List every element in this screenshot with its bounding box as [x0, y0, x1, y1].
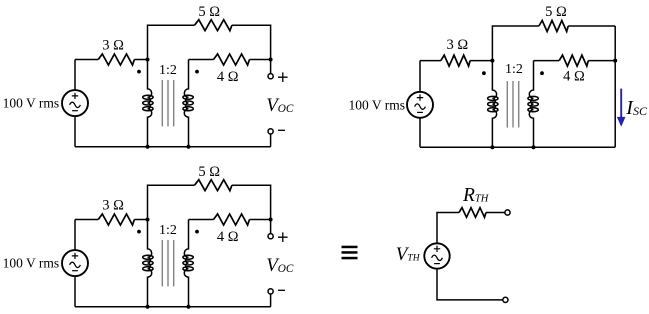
- terminal minus: [268, 289, 273, 294]
- bottom wire: [420, 146, 615, 148]
- resistor 3 ohm: [98, 214, 134, 225]
- transformer core: [162, 240, 173, 287]
- svg-text:4 Ω: 4 Ω: [217, 69, 239, 85]
- wire secondary top to 4-ohm resistor: [189, 59, 214, 61]
- label minus sign: [278, 289, 285, 291]
- wire R_TH to top terminal: [486, 212, 505, 214]
- node secondary bottom: [187, 305, 191, 309]
- wire source bottom: [74, 276, 76, 307]
- wire node to plus terminal: [270, 220, 272, 234]
- resistor 5 ohm: [195, 180, 232, 191]
- svg-text:100 V rms: 100 V rms: [3, 256, 60, 271]
- polarity dot primary: [137, 230, 141, 234]
- wire source top: [419, 61, 421, 92]
- wire 5-ohm to output node: [232, 25, 271, 59]
- svg-text:3 Ω: 3 Ω: [102, 197, 124, 213]
- terminal plus: [268, 234, 273, 239]
- resistor 5 ohm: [539, 21, 568, 32]
- terminal bottom right: [503, 297, 508, 302]
- wire 4-ohm resistor to right node: [588, 60, 615, 62]
- terminal plus: [268, 74, 273, 79]
- transformer secondary winding: [528, 61, 538, 148]
- svg-text:100 V rms: 100 V rms: [3, 96, 60, 111]
- wire 5-ohm branch: [492, 26, 539, 61]
- wire 4-ohm resistor to right node: [250, 219, 271, 221]
- bottom wire: [75, 306, 271, 308]
- wire 5-ohm to output node: [232, 185, 271, 219]
- bottom wire: [75, 146, 271, 148]
- resistor 3 ohm: [441, 55, 470, 66]
- polarity dot secondary: [540, 71, 544, 75]
- wire minus terminal down: [270, 294, 272, 307]
- wire V_TH top to R_TH: [437, 213, 459, 244]
- wire V_TH bottom: [437, 269, 503, 300]
- svg-text:3 Ω: 3 Ω: [102, 37, 124, 53]
- wire 5-ohm branch: [148, 185, 195, 219]
- transformer primary winding: [143, 60, 153, 147]
- polarity dot secondary: [195, 230, 199, 234]
- resistor 4 ohm: [214, 214, 250, 225]
- polarity dot primary: [482, 71, 486, 75]
- transformer core: [507, 81, 518, 128]
- label plus sign: [278, 232, 288, 242]
- resistor 5 ohm: [195, 20, 232, 31]
- resistor R_TH: [459, 208, 486, 218]
- wire 4-ohm resistor to right node: [250, 59, 271, 61]
- svg-text:1:2: 1:2: [159, 223, 177, 238]
- wire 5-ohm branch: [148, 25, 195, 59]
- resistor 4 ohm: [559, 55, 588, 66]
- wire source top: [74, 60, 76, 91]
- wire secondary top to 4-ohm resistor: [534, 60, 560, 62]
- node right junction: [269, 58, 273, 62]
- voltage source V_TH: [424, 243, 449, 268]
- polarity dot secondary: [195, 70, 199, 74]
- node junction primary top: [146, 58, 150, 62]
- transformer secondary winding: [183, 220, 193, 307]
- wire 3-ohm resistor to node: [134, 219, 147, 221]
- node secondary bottom: [187, 145, 191, 149]
- voltage source V3 100 V rms: [62, 250, 88, 276]
- current arrow I_SC: [617, 89, 626, 127]
- wire node to plus terminal: [270, 60, 272, 74]
- node right junction: [269, 218, 273, 222]
- svg-text:5 Ω: 5 Ω: [198, 164, 220, 180]
- wire secondary top to 4-ohm resistor: [189, 219, 214, 221]
- svg-text:4 Ω: 4 Ω: [563, 69, 585, 85]
- wire minus terminal down: [270, 134, 272, 147]
- resistor 4 ohm: [214, 54, 250, 65]
- svg-text:4 Ω: 4 Ω: [217, 229, 239, 245]
- wire source bottom: [74, 116, 76, 147]
- node right junction: [613, 59, 617, 63]
- wire source to 3-ohm resistor: [75, 59, 98, 61]
- svg-text:5 Ω: 5 Ω: [545, 4, 567, 20]
- polarity dot primary: [137, 70, 141, 74]
- wire source to 3-ohm resistor: [75, 219, 98, 221]
- transformer primary winding: [143, 220, 153, 307]
- svg-text:3 Ω: 3 Ω: [446, 37, 468, 53]
- node primary bottom: [146, 305, 150, 309]
- equivalence symbol: [342, 246, 358, 260]
- wire source bottom: [419, 118, 421, 147]
- voltage source V2 100 V rms: [407, 92, 433, 118]
- wire 5-ohm to right rail: [568, 25, 615, 27]
- terminal minus: [268, 129, 273, 134]
- transformer core: [162, 80, 173, 127]
- resistor 3 ohm: [98, 54, 134, 65]
- wire 3-ohm resistor to node: [134, 59, 147, 61]
- wire source top: [74, 220, 76, 251]
- wire source to 3-ohm resistor: [420, 60, 441, 62]
- voltage source V1 100 V rms: [62, 90, 88, 116]
- svg-text:100 V rms: 100 V rms: [348, 97, 405, 112]
- wire 3-ohm resistor to node: [470, 60, 492, 62]
- svg-text:1:2: 1:2: [159, 63, 177, 78]
- svg-text:5 Ω: 5 Ω: [198, 4, 220, 20]
- node secondary bottom: [532, 145, 536, 149]
- transformer primary winding: [488, 61, 498, 148]
- transformer secondary winding: [183, 60, 193, 147]
- node primary bottom: [146, 145, 150, 149]
- svg-text:1:2: 1:2: [505, 62, 523, 77]
- right rail short-circuit wire: [614, 26, 616, 147]
- node junction primary top: [490, 59, 494, 63]
- node primary bottom: [490, 145, 494, 149]
- terminal top right: [505, 210, 510, 215]
- node junction primary top: [146, 218, 150, 222]
- label plus sign: [278, 72, 288, 82]
- label minus sign: [278, 129, 285, 131]
